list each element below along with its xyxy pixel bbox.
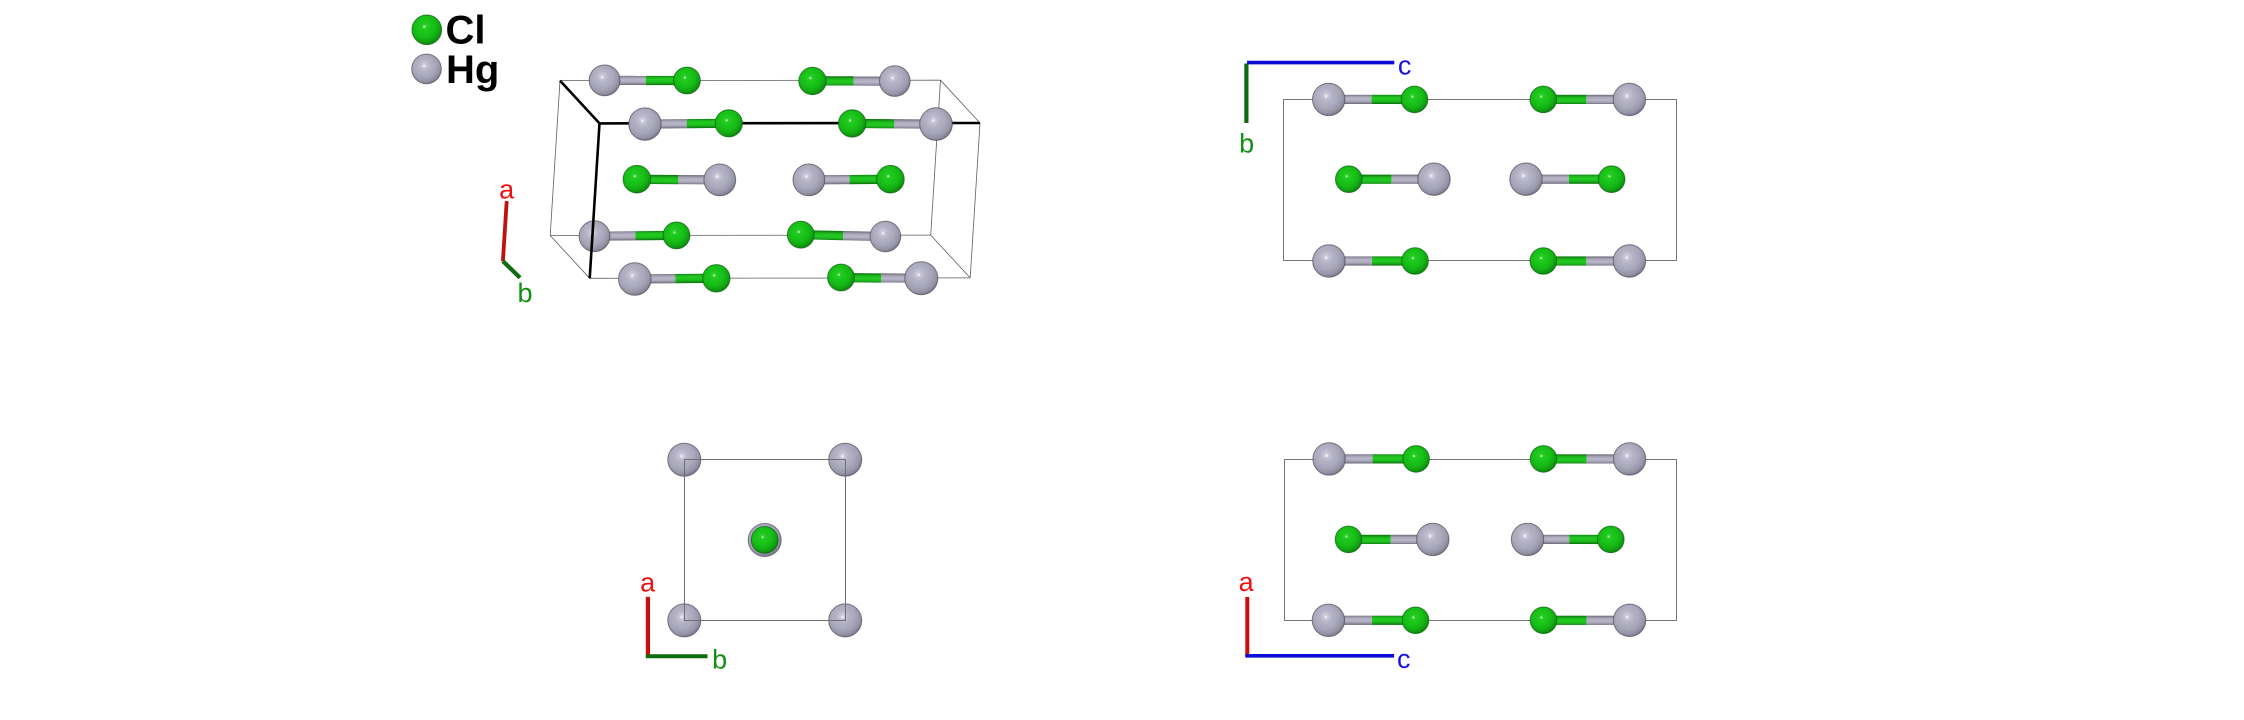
Cl atom (Cl-Hg 3D row2 right left) — [839, 110, 866, 137]
svg-text:a: a — [499, 175, 515, 205]
molecule Cl-Hg 3D row3 left — [623, 164, 736, 196]
bond green (Cl) half — [1544, 616, 1587, 625]
bond green (Cl) half — [1349, 175, 1392, 184]
bond green (Cl) half — [646, 76, 687, 85]
molecule Cl-Hg P2 top-right — [1530, 83, 1646, 115]
bond green (Cl) half — [637, 175, 679, 185]
Cl atom (Hg-Cl P4 bottom-left right) — [1402, 607, 1429, 634]
Cl atom (Hg-Cl P2 bottom-left right) — [1402, 248, 1429, 275]
bond gray (Hg) half — [843, 231, 885, 241]
bond gray (Hg) half — [1587, 454, 1630, 463]
Cl atom (Hg-Cl 3D row1 left right) — [674, 67, 701, 94]
Cl atom (Hg-Cl 3D row4 left right) — [663, 222, 690, 249]
Cl atom (Hg-Cl P2 mid-right right) — [1598, 166, 1625, 193]
molecule Hg-Cl P4 mid-right — [1511, 523, 1624, 555]
panel 3: a-b projection — [640, 443, 862, 674]
bond green (Cl) half — [1543, 256, 1586, 265]
Cl atom (Cl-Hg P4 top-right left) — [1530, 446, 1557, 473]
Cl atom (Hg-Cl P4 mid-right right) — [1598, 526, 1625, 553]
bond green (Cl) half — [801, 230, 843, 240]
bond gray (Hg) half — [678, 175, 720, 185]
Hg atom (Hg-Cl P2 mid-right left) — [1510, 163, 1542, 195]
bond green (Cl) half — [1349, 535, 1391, 544]
Hg atom (Cl-Hg 3D row4 right right) — [870, 221, 901, 252]
unit cell edge right-back vertical (thin) — [931, 80, 941, 235]
bond green (Cl) half — [675, 274, 716, 284]
Cl atom (Cl-Hg P2 bottom-right left) — [1530, 248, 1557, 275]
bond gray (Hg) half — [1587, 616, 1630, 625]
Cl atom (Cl-Hg 3D row3 left left) — [623, 165, 651, 193]
axis b arrow (P3, green) — [646, 654, 708, 658]
bond green (Cl) half — [1373, 454, 1417, 463]
Hg atom (Hg-Cl P2 bottom-left left) — [1313, 245, 1345, 277]
unit cell edge bottom-front (thin) — [590, 277, 971, 279]
bond gray (Hg) half — [1329, 95, 1372, 104]
unit cell axis edge a (thick) — [590, 123, 600, 278]
Hg atom (Cl-Hg P4 mid-left right) — [1417, 523, 1449, 555]
molecule Hg-Cl P2 top-left — [1313, 83, 1428, 115]
unit cell edge top-back (thin) — [560, 79, 941, 81]
axis a arrow (P4, red) — [1245, 597, 1249, 656]
bond green (Cl) half — [850, 175, 891, 185]
Cl atom (Cl-Hg P4 bottom-right left) — [1530, 607, 1557, 634]
bond gray (Hg) half — [854, 76, 895, 85]
Hg atom (Hg-Cl P4 mid-right left) — [1511, 523, 1543, 555]
bond gray (Hg) half — [1528, 535, 1570, 544]
molecule Hg-Cl 3D row4 left — [579, 221, 690, 252]
svg-text:c: c — [1397, 644, 1411, 674]
unit cell edge bottom-back (thin) — [550, 234, 931, 236]
Hg atom (P3 center, behind) — [748, 524, 781, 557]
axis a arrow (3D view, red) — [503, 201, 507, 261]
molecule Cl-Hg P4 top-right — [1530, 443, 1646, 475]
bond gray (Hg) half — [894, 119, 936, 129]
molecule Cl-Hg P2 bottom-right — [1530, 245, 1646, 277]
molecule Cl-Hg P4 bottom-right — [1530, 604, 1646, 636]
svg-text:a: a — [640, 568, 656, 598]
Hg atom (Cl-Hg P2 top-right right) — [1613, 83, 1645, 115]
molecule Cl-Hg P4 mid-left — [1335, 523, 1449, 555]
legend Cl sphere — [412, 15, 442, 45]
bond green (Cl) half — [1372, 256, 1415, 265]
unit cell edge bottom-right depth (thin) — [931, 235, 971, 278]
bond gray (Hg) half — [1526, 175, 1569, 184]
bond green (Cl) half — [841, 273, 881, 283]
unit cell edge right-front vertical (thin) — [970, 123, 980, 278]
bond green (Cl) half — [1569, 535, 1611, 544]
molecule Hg-Cl P2 bottom-left — [1313, 245, 1429, 277]
molecule Hg-Cl 3D row2 left — [629, 108, 743, 140]
axis b arrow (P2, green) — [1244, 64, 1248, 124]
bond gray (Hg) half — [809, 175, 850, 185]
bond gray (Hg) half — [1586, 95, 1629, 104]
Hg atom (Cl-Hg 3D row1 right right) — [880, 66, 911, 97]
molecule Cl-Hg 3D row5 right — [828, 262, 938, 295]
Hg atom (Hg-Cl 3D row4 left left) — [579, 221, 610, 252]
legend Hg sphere — [412, 54, 442, 84]
unit cell axis edge b (thick) — [560, 81, 600, 124]
Cl atom (Hg-Cl 3D row3 right right) — [877, 165, 905, 193]
Hg atom (P3 top-right corner) — [829, 443, 862, 476]
Hg atom (Cl-Hg P2 mid-left right) — [1418, 163, 1450, 195]
bond gray (Hg) half — [605, 76, 646, 85]
bond green (Cl) half — [812, 76, 853, 85]
Hg atom (Cl-Hg 3D row3 left right) — [704, 164, 736, 196]
unit cell rectangle (a-c projection) — [1285, 460, 1677, 621]
bond gray (Hg) half — [1329, 256, 1372, 265]
axis c arrow (P2, blue) — [1247, 61, 1394, 65]
bond green (Cl) half — [1372, 95, 1415, 104]
molecule Hg-Cl P4 bottom-left — [1312, 604, 1429, 636]
Cl atom (P3 center, front) — [751, 527, 778, 554]
Hg atom (Cl-Hg 3D row2 right right) — [920, 108, 953, 141]
axis a arrow (P3, red) — [646, 597, 650, 657]
Hg atom (Hg-Cl 3D row3 right left) — [793, 164, 825, 196]
bond gray (Hg) half — [1391, 535, 1433, 544]
bond gray (Hg) half — [1586, 256, 1629, 265]
svg-text:Hg: Hg — [446, 48, 499, 92]
Cl atom (Hg-Cl 3D row2 left right) — [715, 110, 742, 137]
bond gray (Hg) half — [635, 274, 676, 284]
unit cell axis edge c (thick) — [600, 122, 981, 125]
molecule Hg-Cl 3D row5 left — [619, 263, 731, 296]
bond green (Cl) half — [1543, 95, 1586, 104]
Hg atom (Hg-Cl P4 top-left left) — [1313, 443, 1345, 475]
axis b arrow (3D view, green) — [503, 261, 520, 278]
bond green (Cl) half — [635, 231, 676, 241]
Cl atom (Cl-Hg P4 mid-left left) — [1335, 526, 1362, 553]
molecule Cl-Hg 3D row4 right — [787, 221, 900, 252]
Hg atom (P3 top-left corner) — [668, 443, 701, 476]
Hg atom (Cl-Hg P2 bottom-right right) — [1613, 245, 1645, 277]
svg-text:c: c — [1398, 51, 1412, 81]
molecule Hg-Cl 3D row3 right — [793, 164, 904, 196]
molecule Cl-Hg 3D row1 right — [799, 66, 910, 97]
panel 1: 3D unit cell view — [499, 65, 980, 308]
bond gray (Hg) half — [645, 119, 687, 129]
Hg atom (Hg-Cl 3D row1 left left) — [589, 65, 620, 96]
bond gray (Hg) half — [594, 231, 635, 241]
Hg atom (Cl-Hg P4 bottom-right right) — [1613, 604, 1645, 636]
Hg atom (Hg-Cl 3D row2 left left) — [629, 108, 661, 140]
bond green (Cl) half — [687, 119, 729, 129]
bond green (Cl) half — [852, 119, 894, 129]
molecule Hg-Cl 3D row1 left — [589, 65, 700, 96]
unit cell rectangle (b-c projection) — [1284, 100, 1677, 261]
panel 4: a-c projection — [1239, 443, 1677, 674]
molecule Hg-Cl P4 top-left — [1313, 443, 1429, 475]
Cl atom (Hg-Cl P2 top-left right) — [1401, 86, 1428, 113]
Cl atom (Cl-Hg 3D row1 right left) — [799, 67, 826, 94]
Cl atom (Cl-Hg P2 top-right left) — [1530, 86, 1557, 113]
panel 2: b-c projection — [1239, 51, 1676, 278]
Hg atom (Cl-Hg P4 top-right right) — [1613, 443, 1645, 475]
Cl atom (Cl-Hg 3D row5 right left) — [828, 264, 855, 291]
bond gray (Hg) half — [1329, 454, 1373, 463]
Hg atom (Hg-Cl 3D row5 left left) — [619, 263, 652, 296]
Hg atom (P3 bottom-left corner) — [668, 604, 701, 637]
bond gray (Hg) half — [1328, 616, 1372, 625]
molecule Cl-Hg 3D row2 right — [839, 108, 953, 141]
bond green (Cl) half — [1544, 454, 1587, 463]
bond gray (Hg) half — [1391, 175, 1434, 184]
bond green (Cl) half — [1569, 175, 1612, 184]
Cl atom (Cl-Hg P2 mid-left left) — [1336, 166, 1363, 193]
Cl atom (Cl-Hg 3D row4 right left) — [787, 221, 814, 248]
unit cell square (a-b projection) — [685, 460, 846, 621]
svg-text:b: b — [517, 278, 532, 308]
Hg atom (Hg-Cl P4 bottom-left left) — [1312, 604, 1344, 636]
Hg atom (Cl-Hg 3D row5 right right) — [905, 262, 938, 295]
axis c arrow (P4, blue) — [1245, 654, 1394, 658]
Cl atom (Hg-Cl P4 top-left right) — [1403, 446, 1430, 473]
Hg atom (P3 bottom-right corner) — [829, 604, 862, 637]
bond gray (Hg) half — [881, 273, 921, 283]
svg-text:a: a — [1239, 567, 1255, 597]
Cl atom (Hg-Cl 3D row5 left right) — [703, 265, 730, 292]
Hg atom (Hg-Cl P2 top-left left) — [1313, 83, 1345, 115]
svg-text:b: b — [712, 645, 727, 675]
svg-text:b: b — [1239, 128, 1254, 158]
molecule Cl-Hg P2 mid-left — [1336, 163, 1451, 195]
unit cell edge bottom-left depth (thin) — [550, 236, 590, 279]
unit cell edge top-right depth (thin) — [941, 80, 981, 123]
unit cell edge left-back vertical (thin) — [550, 81, 560, 236]
bond green (Cl) half — [1372, 616, 1416, 625]
molecule Hg-Cl P2 mid-right — [1510, 163, 1625, 195]
svg-text:Cl: Cl — [446, 9, 486, 53]
